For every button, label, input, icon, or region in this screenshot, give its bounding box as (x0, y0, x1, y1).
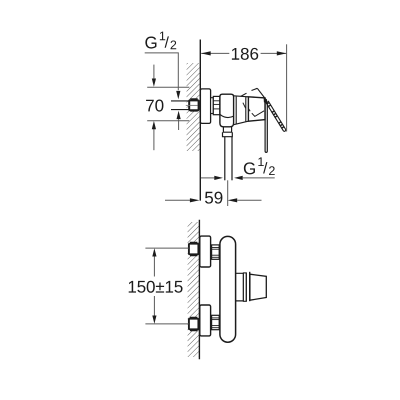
body front arc (220, 114, 234, 117)
text 70 (146, 100, 163, 112)
mixer body capsule (bottom view) (220, 236, 236, 342)
wall line (bottom view) (198, 220, 200, 359)
hose centerline (227, 180, 229, 206)
lever ghost position (dashed) (241, 93, 247, 96)
wall hatching (bottom view) (188, 222, 200, 357)
shower outlet neck (223, 127, 231, 132)
lever in down position (265, 101, 267, 153)
top escutcheon (200, 236, 211, 267)
lever knob ring (243, 273, 246, 301)
hose G 1/2 arrows (201, 177, 215, 179)
supply pipe centerline (186, 104, 198, 106)
bottom supply nut (189, 319, 199, 330)
lever knob neck (236, 273, 244, 301)
label G 1/2 (top) (145, 37, 156, 49)
dimension 150±15 arrows (152, 248, 156, 256)
supply hex nut (top view) (189, 100, 198, 110)
handle cap (top view) (248, 97, 265, 121)
union nut (top view) (213, 96, 220, 114)
cartridge housing (top view) (234, 96, 249, 125)
wall line (top view) (199, 40, 201, 201)
dimension 70 extension lines (147, 86, 189, 88)
top supply nut (189, 244, 199, 255)
dimension 59 (165, 199, 190, 201)
bottom union nut (212, 315, 220, 329)
escutcheon (top view) (200, 89, 210, 124)
top union nut (212, 245, 220, 259)
dimension 186 (201, 52, 229, 54)
wall hatching (top view) (187, 63, 200, 151)
lever knob cone (250, 274, 266, 300)
supply pipe stub (171, 100, 190, 102)
leader G 1/2 top (145, 53, 179, 90)
extension line 186 (286, 44, 288, 131)
label G 1/2 (hose) (244, 162, 255, 174)
mixer body (top view) (220, 94, 234, 127)
connector shaft (211, 98, 214, 114)
hose connection pipe (224, 137, 226, 181)
lever in diagonal position (striped) (266, 101, 286, 132)
text 150±15 (129, 281, 183, 293)
lever pivot (264, 98, 268, 103)
dimension 70 arrows (153, 65, 155, 80)
bottom escutcheon (200, 305, 211, 336)
G 1/2 inlet arrow (up) (177, 111, 181, 119)
dimension 150±15 extension lines (145, 247, 188, 249)
shower outlet collar (223, 132, 233, 137)
